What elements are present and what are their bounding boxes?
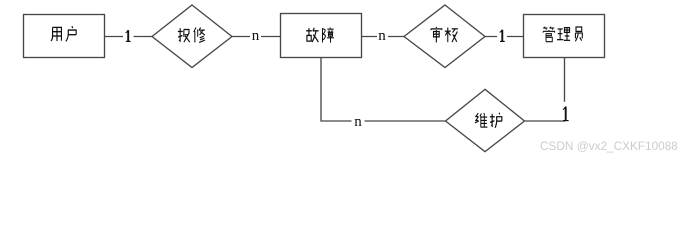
- text 维护: [475, 113, 488, 127]
- cardinality label 1 (审核-管理员): [500, 30, 505, 42]
- relationship diamond 报修 (Report repair): [152, 5, 232, 68]
- svg-text:n: n: [378, 28, 386, 44]
- text 故障: [306, 28, 319, 42]
- text 用户: [51, 27, 61, 41]
- svg-text:n: n: [354, 114, 362, 130]
- entity rectangle 管理员 (Administrator): [524, 15, 605, 58]
- svg-text:CSDN @vx2_CXKF10088: CSDN @vx2_CXKF10088: [540, 139, 678, 153]
- text 报修: [178, 28, 190, 42]
- wire 故障-维护 L-shape: [321, 58, 446, 122]
- svg-text:n: n: [252, 28, 260, 44]
- relationship diamond 审核 (Review): [404, 5, 485, 68]
- entity rectangle 故障 (Fault): [281, 14, 362, 58]
- wire 管理员-维护 L-shape: [525, 58, 565, 122]
- text 审核: [431, 27, 442, 43]
- wire 审核-管理员: [485, 36, 524, 38]
- wire 用户-报修: [105, 36, 153, 38]
- cardinality label 1 (管理员-维护): [563, 107, 569, 121]
- text 管理员: [543, 27, 554, 42]
- entity rectangle 用户 (User): [24, 15, 105, 58]
- relationship diamond 维护 (Maintain): [446, 89, 525, 151]
- cardinality label 1 (用户-报修): [126, 30, 131, 41]
- label background gaps: [123, 28, 570, 129]
- wire 报修-故障: [232, 36, 281, 38]
- wire 故障-审核: [362, 36, 405, 38]
